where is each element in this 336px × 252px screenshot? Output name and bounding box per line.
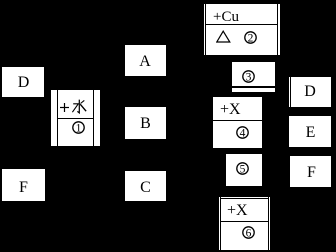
triangle (heat) bbox=[216, 30, 231, 43]
circled 2 bbox=[244, 31, 257, 44]
reaction label box 4: +X over (4) bbox=[213, 97, 262, 148]
svg-text:1: 1 bbox=[76, 122, 82, 134]
reaction label box 1: +water over (1) bbox=[51, 90, 100, 146]
box A bbox=[125, 45, 166, 76]
+Cu text bbox=[213, 7, 239, 27]
circled 1 bbox=[72, 121, 85, 134]
box F (left) bbox=[2, 169, 45, 201]
svg-text:2: 2 bbox=[248, 32, 254, 44]
circled 5 bbox=[236, 162, 249, 175]
box D (right) bbox=[289, 77, 331, 107]
svg-text:3: 3 bbox=[246, 71, 252, 83]
box E (right) bbox=[289, 116, 331, 147]
box B bbox=[125, 107, 166, 139]
box F (right) bbox=[290, 156, 331, 187]
right side line bbox=[93, 90, 95, 146]
reaction label box 5: (5) bbox=[226, 154, 262, 186]
svg-text:5: 5 bbox=[240, 163, 246, 175]
left side line bbox=[57, 90, 58, 146]
box C bbox=[125, 171, 166, 201]
reaction label box 2: +Cu over triangle (2) bbox=[204, 4, 280, 55]
reaction label box 6: +X over (6) bbox=[219, 197, 270, 250]
circled 6 bbox=[242, 226, 255, 239]
reaction label box 3: (3) bbox=[232, 62, 275, 92]
circled 4 bbox=[236, 126, 249, 139]
+water text bbox=[59, 98, 87, 115]
circled 3 bbox=[242, 70, 255, 83]
box D (left) bbox=[2, 67, 44, 97]
svg-text:4: 4 bbox=[240, 127, 246, 139]
svg-text:6: 6 bbox=[246, 227, 252, 239]
divider line bbox=[58, 118, 94, 119]
